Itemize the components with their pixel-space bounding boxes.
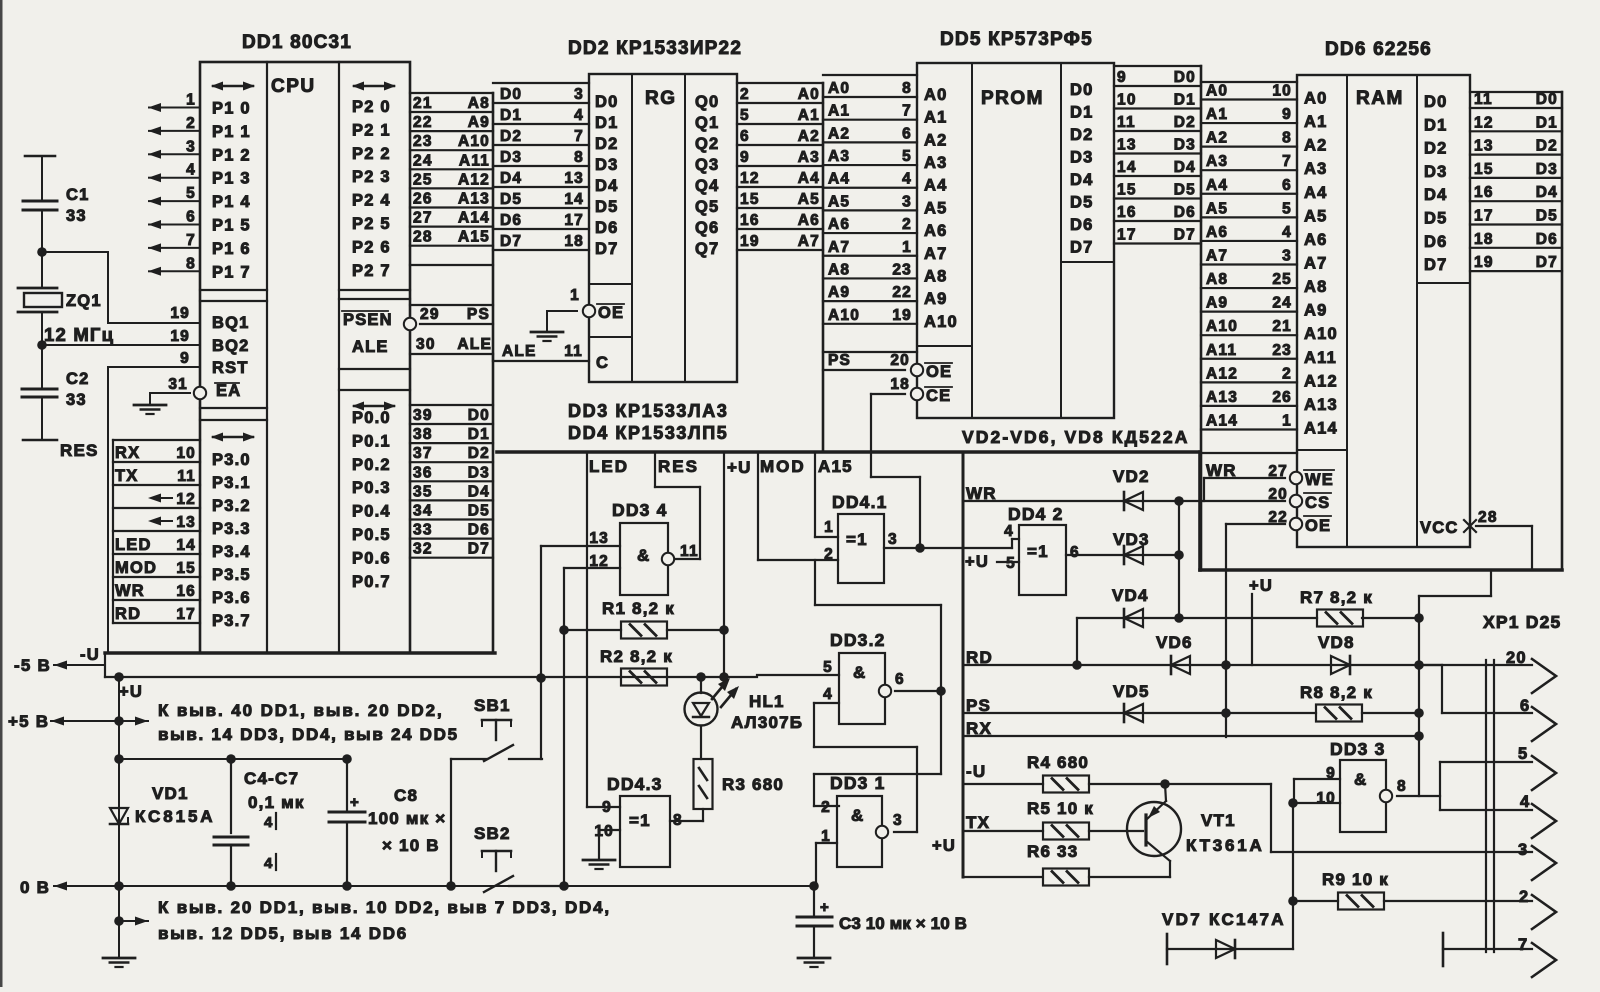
- svg-text:VD4: VD4: [1112, 586, 1149, 605]
- svg-text:A8: A8: [924, 267, 948, 285]
- svg-text:DD3 1: DD3 1: [830, 773, 886, 793]
- svg-text:P2 4: P2 4: [352, 192, 391, 210]
- svg-text:Q5: Q5: [695, 198, 719, 216]
- wire DD3.1 pin1 to 0V: [816, 843, 837, 886]
- svg-text:21: 21: [413, 95, 433, 112]
- svg-text:A6: A6: [798, 212, 820, 229]
- svg-text:R9 10 к: R9 10 к: [1322, 870, 1389, 889]
- resistor R1 8.2k: [564, 599, 729, 639]
- svg-text:A12: A12: [1206, 365, 1238, 382]
- svg-text:D6: D6: [595, 219, 619, 237]
- svg-text:A9: A9: [1206, 295, 1228, 312]
- DD1 port P0 labels: [352, 402, 396, 591]
- svg-text:12: 12: [176, 491, 196, 508]
- svg-text:6: 6: [902, 125, 912, 142]
- svg-text:29: 29: [420, 306, 440, 323]
- svg-text:+U: +U: [119, 683, 143, 701]
- svg-text:26: 26: [1272, 389, 1292, 406]
- svg-text:2: 2: [740, 86, 750, 103]
- svg-text:P0.0: P0.0: [352, 409, 391, 427]
- svg-text:15: 15: [1117, 182, 1137, 199]
- svg-text:3: 3: [1518, 841, 1528, 859]
- svg-text:P1 0: P1 0: [212, 100, 251, 118]
- ground under VD1 branch: [103, 958, 135, 967]
- DD6 VCC pin 28: [1464, 509, 1532, 570]
- svg-text:36: 36: [413, 464, 433, 481]
- svg-text:A12: A12: [1304, 372, 1338, 390]
- wire PS pin 20 into DD5 OE: [823, 352, 923, 376]
- svg-text:D0: D0: [468, 407, 490, 424]
- svg-text:P3.1: P3.1: [212, 474, 251, 492]
- svg-text:A5: A5: [798, 191, 820, 208]
- svg-text:4: 4: [823, 686, 833, 703]
- svg-text:A2: A2: [798, 128, 820, 145]
- svg-text:D3: D3: [595, 156, 619, 174]
- svg-text:23: 23: [892, 261, 912, 278]
- wires DD6 D0-D7 pins 11-19 to right bus: [1470, 91, 1562, 271]
- svg-text:D3: D3: [1174, 137, 1196, 154]
- power distribution text top: [158, 701, 459, 744]
- svg-text:7: 7: [186, 232, 196, 249]
- address bus vertical middle: [822, 83, 825, 452]
- XP1 pin 6 wire: [1442, 697, 1556, 741]
- svg-text:=1: =1: [1027, 542, 1049, 561]
- svg-text:11: 11: [177, 468, 196, 485]
- svg-text:10: 10: [1117, 92, 1137, 109]
- svg-text:2: 2: [821, 799, 831, 816]
- DD1 P0 pin rows D0-D7 pins 39-32: [410, 405, 493, 558]
- svg-text:4: 4: [264, 814, 274, 831]
- svg-text:D7: D7: [1070, 239, 1094, 257]
- capacitor C8 100u: [329, 754, 446, 891]
- svg-text:D2: D2: [468, 445, 490, 462]
- svg-text:A0: A0: [924, 86, 948, 104]
- svg-text:23: 23: [413, 133, 433, 150]
- svg-text:EA: EA: [216, 382, 241, 400]
- svg-text:ALE: ALE: [352, 338, 389, 356]
- svg-text:6: 6: [1070, 544, 1080, 561]
- svg-text:A7: A7: [798, 233, 820, 250]
- diode VD2: [1113, 467, 1150, 510]
- svg-text:32: 32: [413, 541, 433, 558]
- svg-text:P1 1: P1 1: [212, 123, 251, 141]
- wire WR to DD6 WE CS: [963, 461, 1302, 530]
- svg-text:A0: A0: [1304, 90, 1328, 108]
- capacitors C4-C7 0.1u: [119, 754, 347, 891]
- DD1 BQ1 BQ2 RST EA labels: [212, 314, 250, 400]
- svg-text:D0: D0: [1536, 91, 1558, 108]
- svg-text:SB1: SB1: [474, 696, 511, 715]
- svg-text:21: 21: [1272, 318, 1292, 335]
- svg-text:DD3 3: DD3 3: [1330, 739, 1386, 759]
- svg-text:33: 33: [413, 522, 433, 539]
- svg-text:RES: RES: [60, 441, 99, 460]
- svg-text:D2: D2: [1174, 114, 1196, 131]
- svg-text:RX: RX: [115, 444, 140, 462]
- svg-text:RAM: RAM: [1356, 88, 1404, 109]
- connector XP1 D25 label: [1483, 612, 1561, 632]
- DD1 PSEN pin 29 PS row: [404, 305, 493, 330]
- svg-text:A8: A8: [468, 95, 490, 112]
- pull-up vertical to VCC rail: [1419, 571, 1491, 796]
- svg-text:ALE: ALE: [457, 336, 492, 353]
- svg-text:=1: =1: [846, 530, 868, 549]
- svg-text:P1 5: P1 5: [212, 217, 251, 235]
- svg-text:D3: D3: [500, 149, 522, 166]
- svg-text:+U: +U: [932, 837, 956, 855]
- svg-text:&: &: [853, 663, 866, 682]
- label +U near bus: [932, 837, 956, 855]
- svg-text:P1 2: P1 2: [212, 146, 251, 164]
- svg-text:39: 39: [413, 407, 433, 424]
- svg-text:&: &: [637, 546, 650, 565]
- svg-text:× 10 В: × 10 В: [382, 836, 440, 855]
- svg-text:4: 4: [902, 171, 912, 188]
- svg-text:D1: D1: [468, 426, 490, 443]
- svg-text:A3: A3: [1304, 160, 1328, 178]
- svg-text:D6: D6: [500, 212, 522, 229]
- diode VD8: [1226, 633, 1442, 674]
- svg-text:D0: D0: [1174, 69, 1196, 86]
- svg-text:D0: D0: [1070, 81, 1094, 99]
- svg-text:14: 14: [1117, 159, 1137, 176]
- svg-text:VD7 КС147А: VD7 КС147А: [1162, 910, 1286, 929]
- svg-text:P2 7: P2 7: [352, 262, 391, 280]
- svg-text:20: 20: [890, 352, 910, 369]
- svg-text:D1: D1: [595, 114, 619, 132]
- svg-text:D4: D4: [1424, 186, 1448, 204]
- svg-text:15: 15: [176, 560, 196, 577]
- svg-text:A15: A15: [818, 457, 853, 476]
- svg-text:D7: D7: [1536, 254, 1558, 271]
- svg-text:PS: PS: [828, 352, 851, 369]
- svg-text:12: 12: [1474, 114, 1494, 131]
- wire RX row: [963, 719, 1424, 741]
- svg-text:BQ1: BQ1: [212, 314, 250, 332]
- svg-text:TX: TX: [115, 467, 138, 485]
- XP1 pin 4 wire: [1440, 793, 1556, 838]
- svg-text:D4: D4: [595, 177, 619, 195]
- svg-text:DD3 4: DD3 4: [612, 500, 668, 520]
- DD1 PSEN ALE labels: [342, 311, 393, 356]
- diode VD4: [1077, 586, 1317, 665]
- svg-text:18: 18: [890, 376, 910, 393]
- svg-text:A4: A4: [924, 177, 948, 195]
- net stub +U: [724, 452, 752, 676]
- heavy data bus loop: [497, 66, 1562, 570]
- DD1 port P2 labels: [352, 82, 396, 280]
- resistor R7 8.2k: [1300, 588, 1424, 627]
- svg-text:11: 11: [1474, 91, 1493, 108]
- svg-text:A4: A4: [798, 170, 820, 187]
- svg-text:2: 2: [186, 115, 196, 132]
- svg-text:WR: WR: [115, 582, 145, 600]
- svg-text:8: 8: [673, 812, 683, 829]
- svg-text:VD1: VD1: [152, 784, 189, 803]
- svg-text:2: 2: [824, 546, 834, 563]
- IC DD1 body: [200, 62, 410, 653]
- svg-text:19: 19: [1474, 254, 1494, 271]
- svg-text:ZQ1: ZQ1: [66, 292, 102, 310]
- svg-text:19: 19: [170, 305, 190, 322]
- svg-text:6: 6: [895, 671, 905, 688]
- svg-text:27: 27: [413, 210, 433, 227]
- diode VD5: [1113, 682, 1150, 722]
- svg-text:14: 14: [564, 191, 584, 208]
- svg-text:13: 13: [589, 530, 609, 547]
- diode VD3: [1113, 501, 1184, 618]
- XP1 pin 20 wire: [1419, 649, 1556, 713]
- svg-text:D1: D1: [1070, 104, 1094, 122]
- svg-text:D1: D1: [500, 107, 522, 124]
- svg-text:2: 2: [1519, 888, 1529, 906]
- svg-text:D4: D4: [1070, 171, 1094, 189]
- svg-text:19: 19: [170, 328, 190, 345]
- svg-text:ALE: ALE: [502, 343, 537, 360]
- svg-text:D4: D4: [1174, 159, 1196, 176]
- svg-text:13: 13: [176, 514, 196, 531]
- svg-text:A15: A15: [458, 229, 490, 246]
- wire BQ1 from crystal node: [42, 252, 200, 323]
- gate DD4.3 =1: [587, 774, 683, 867]
- svg-text:14: 14: [176, 537, 196, 554]
- svg-text:12: 12: [740, 170, 760, 187]
- svg-text:3: 3: [1282, 247, 1292, 264]
- svg-text:XP1 D25: XP1 D25: [1483, 612, 1561, 632]
- VD1 KS815A zener: [110, 672, 215, 958]
- svg-text:8: 8: [902, 80, 912, 97]
- IC DD2 body RG: [589, 74, 737, 382]
- svg-text:D7: D7: [468, 541, 490, 558]
- svg-text:D3: D3: [468, 464, 490, 481]
- svg-text:33: 33: [66, 391, 87, 409]
- svg-text:Q6: Q6: [695, 219, 719, 237]
- DD1 P3 pin rows RX TX LED MOD WR RD: [113, 440, 200, 623]
- svg-text:7: 7: [1518, 936, 1528, 954]
- svg-text:АЛ307Б: АЛ307Б: [731, 713, 803, 732]
- XP1 pin 2 wire: [1519, 888, 1556, 929]
- svg-text:A4: A4: [1206, 177, 1228, 194]
- XP1 pin 7 wire: [1443, 933, 1556, 977]
- svg-text:6: 6: [186, 209, 196, 226]
- svg-text:0,1 мк: 0,1 мк: [248, 793, 305, 812]
- svg-text:Q1: Q1: [695, 114, 719, 132]
- svg-text:К выв. 20 DD1, выв. 10 DD2, вы: К выв. 20 DD1, выв. 10 DD2, выв 7 DD3, D…: [158, 898, 611, 917]
- svg-text:10: 10: [594, 823, 614, 840]
- svg-text:R6 33: R6 33: [1027, 842, 1078, 861]
- svg-text:D0: D0: [500, 86, 522, 103]
- svg-text:P3.2: P3.2: [212, 497, 251, 515]
- svg-text:A7: A7: [1304, 254, 1328, 272]
- svg-text:WR: WR: [1206, 461, 1237, 480]
- svg-text:17: 17: [1117, 227, 1137, 244]
- svg-text:0 В: 0 В: [20, 878, 50, 897]
- wire TX tap and resistor R5 10k: [963, 799, 1143, 840]
- svg-text:25: 25: [1272, 271, 1292, 288]
- svg-text:5: 5: [902, 148, 912, 165]
- IC DD6 62256 title: [1325, 39, 1432, 60]
- IC DD5 body PROM: [917, 63, 1114, 418]
- svg-text:D6: D6: [468, 522, 490, 539]
- svg-text:A11: A11: [1304, 349, 1337, 367]
- svg-text:A14: A14: [1206, 412, 1238, 429]
- svg-text:1: 1: [186, 92, 196, 109]
- svg-text:OE: OE: [926, 363, 952, 381]
- svg-text:К выв. 40 DD1, выв. 20 DD2,: К выв. 40 DD1, выв. 20 DD2,: [158, 701, 444, 720]
- wire BQ2 from crystal node: [37, 328, 200, 350]
- svg-text:PROM: PROM: [981, 88, 1044, 109]
- svg-text:D5: D5: [1070, 194, 1094, 212]
- svg-text:PSEN: PSEN: [343, 311, 393, 329]
- svg-text:A3: A3: [828, 148, 850, 165]
- svg-text:D5: D5: [1536, 208, 1558, 225]
- svg-text:1: 1: [902, 239, 912, 256]
- svg-text:A0: A0: [828, 80, 850, 97]
- svg-text:A10: A10: [1206, 318, 1238, 335]
- svg-text:6: 6: [1282, 177, 1292, 194]
- wires DD2 Q0-Q7 to address bus A0-A7: [737, 83, 823, 250]
- svg-text:19: 19: [892, 307, 912, 324]
- svg-text:7: 7: [574, 128, 584, 145]
- svg-text:P0.2: P0.2: [352, 456, 391, 474]
- svg-text:MOD: MOD: [760, 457, 806, 476]
- svg-text:P0.1: P0.1: [352, 432, 391, 450]
- svg-text:A8: A8: [828, 261, 850, 278]
- svg-text:9: 9: [740, 149, 750, 166]
- svg-text:8: 8: [1397, 778, 1407, 795]
- net stub LED: [587, 452, 629, 807]
- svg-text:VT1: VT1: [1201, 811, 1236, 830]
- svg-text:D5: D5: [1424, 210, 1448, 228]
- svg-text:A2: A2: [924, 131, 948, 149]
- svg-text:C2: C2: [66, 370, 90, 388]
- svg-text:15: 15: [740, 191, 760, 208]
- svg-text:A1: A1: [798, 107, 820, 124]
- svg-text:13: 13: [1474, 138, 1494, 155]
- svg-text:D7: D7: [1424, 256, 1448, 274]
- IC DD3 DD4 type labels: [568, 401, 729, 443]
- svg-text:P2 3: P2 3: [352, 168, 391, 186]
- wire DD3.2 pin5 from rail: [757, 674, 839, 676]
- svg-text:A6: A6: [828, 216, 850, 233]
- svg-text:D3: D3: [1536, 161, 1558, 178]
- svg-text:A7: A7: [1206, 247, 1228, 264]
- gate DD3.2 NAND latch: [823, 630, 905, 724]
- svg-text:P3.5: P3.5: [212, 566, 251, 584]
- svg-text:12 МГц: 12 МГц: [44, 324, 114, 345]
- IC DD5 KR573RF5 title: [940, 29, 1093, 50]
- XP1 pin 5 wire: [1440, 745, 1556, 810]
- svg-text:19: 19: [740, 233, 760, 250]
- net stub A15 to DD4.1 pin 1: [815, 452, 853, 537]
- svg-text:A3: A3: [1206, 153, 1228, 170]
- svg-text:выв. 14 DD3, DD4, выв 24 DD5: выв. 14 DD3, DD4, выв 24 DD5: [158, 725, 459, 744]
- XP1 pin 3 wire: [1518, 841, 1556, 880]
- transistor VT1 KT361A: [1127, 784, 1265, 877]
- svg-text:24: 24: [1272, 295, 1292, 312]
- svg-text:16: 16: [740, 212, 760, 229]
- svg-text:16: 16: [1117, 204, 1137, 221]
- svg-text:&: &: [1354, 770, 1367, 789]
- svg-text:23: 23: [1272, 342, 1292, 359]
- net stub MOD to DD4.1 pin 2: [758, 452, 838, 560]
- svg-text:DD2 КР1533ИР22: DD2 КР1533ИР22: [568, 38, 742, 59]
- svg-text:C3 10 мк × 10 В: C3 10 мк × 10 В: [839, 914, 967, 933]
- svg-text:A10: A10: [828, 307, 860, 324]
- svg-text:17: 17: [564, 212, 584, 229]
- svg-text:A8: A8: [1304, 278, 1328, 296]
- wire RST / RES vertical: [60, 350, 200, 653]
- resistor R2 8.2k: [600, 647, 729, 686]
- svg-text:PS: PS: [467, 306, 490, 323]
- svg-text:CE: CE: [926, 387, 951, 405]
- svg-text:A12: A12: [458, 171, 490, 188]
- wire DD3.4 pin13 to SB1: [536, 546, 620, 759]
- svg-text:A14: A14: [1304, 419, 1338, 437]
- svg-text:VCC: VCC: [1420, 519, 1458, 537]
- svg-text:A7: A7: [828, 239, 850, 256]
- svg-text:4: 4: [264, 855, 274, 872]
- svg-text:P2 1: P2 1: [352, 121, 391, 139]
- svg-text:D6: D6: [1070, 216, 1094, 234]
- svg-text:18: 18: [1474, 231, 1494, 248]
- svg-text:D2: D2: [500, 128, 522, 145]
- svg-text:D7: D7: [1174, 227, 1196, 244]
- svg-text:CPU: CPU: [271, 76, 316, 97]
- 0V distribution text: [114, 898, 611, 943]
- svg-text:Q3: Q3: [695, 156, 719, 174]
- svg-text:DD4 2: DD4 2: [1008, 504, 1064, 524]
- gate DD3.1 NAND latch: [821, 773, 903, 867]
- svg-text:4: 4: [574, 107, 584, 124]
- svg-text:A9: A9: [828, 284, 850, 301]
- wire -U tap and resistor R4 680: [963, 753, 1271, 793]
- svg-text:P2 2: P2 2: [352, 145, 391, 163]
- svg-text:A5: A5: [828, 193, 850, 210]
- svg-text:13: 13: [1117, 137, 1137, 154]
- svg-text:28: 28: [1478, 509, 1498, 526]
- svg-text:A1: A1: [1304, 113, 1328, 131]
- svg-text:5: 5: [740, 107, 750, 124]
- svg-text:R2 8,2 к: R2 8,2 к: [600, 647, 673, 666]
- svg-text:=1: =1: [629, 811, 651, 830]
- svg-text:2: 2: [902, 216, 912, 233]
- svg-text:9: 9: [180, 350, 190, 367]
- svg-text:DD6 62256: DD6 62256: [1325, 39, 1432, 60]
- svg-text:P3.6: P3.6: [212, 589, 251, 607]
- svg-text:3: 3: [186, 138, 196, 155]
- svg-text:A9: A9: [468, 114, 490, 131]
- svg-text:выв. 12 DD5, выв 14 DD6: выв. 12 DD5, выв 14 DD6: [158, 924, 408, 943]
- svg-text:5: 5: [823, 659, 833, 676]
- svg-text:A13: A13: [1304, 396, 1338, 414]
- svg-text:DD4.1: DD4.1: [832, 492, 888, 512]
- IC DD2 KR1533IR22 title: [568, 38, 742, 59]
- svg-text:Q4: Q4: [695, 177, 719, 195]
- svg-text:+U: +U: [727, 458, 752, 477]
- svg-text:17: 17: [1474, 208, 1494, 225]
- svg-text:A2: A2: [828, 125, 850, 142]
- svg-text:9: 9: [1117, 69, 1127, 86]
- svg-text:P0.7: P0.7: [352, 573, 391, 591]
- svg-text:TX: TX: [966, 813, 990, 832]
- svg-text:5: 5: [1518, 745, 1528, 763]
- svg-text:VD8: VD8: [1318, 633, 1355, 652]
- svg-text:RG: RG: [645, 88, 677, 109]
- svg-text:D2: D2: [1070, 126, 1094, 144]
- svg-text:D7: D7: [595, 240, 619, 258]
- label +U over R7 area: [1249, 577, 1273, 665]
